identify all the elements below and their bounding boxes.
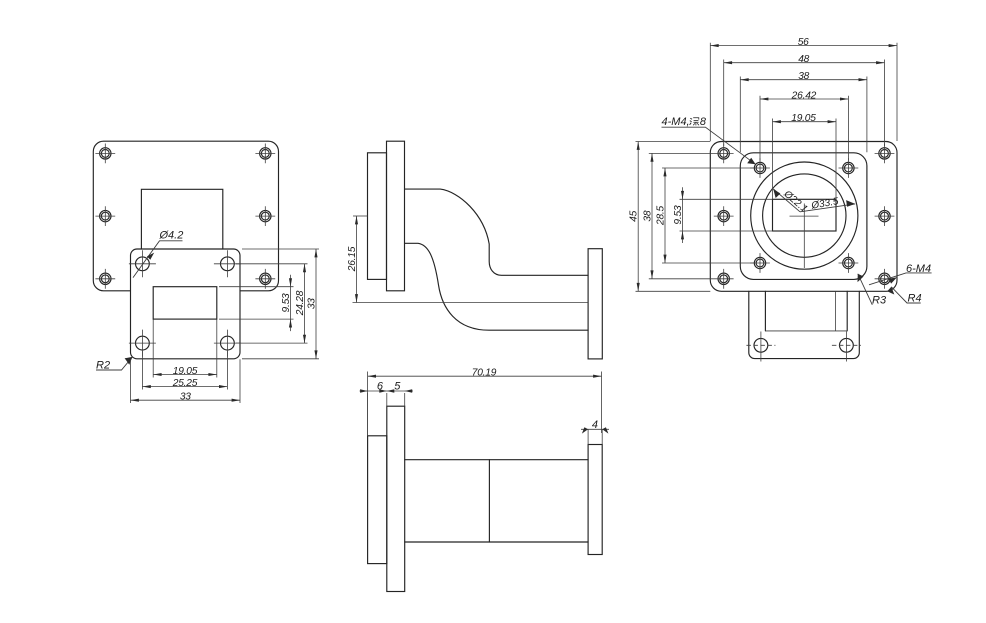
label dia33.5 with leader: [800, 196, 855, 212]
dim 24.28 front view: [295, 264, 306, 343]
label dia 4.2 with leader: [133, 230, 183, 278]
boss outline rear view: [740, 153, 867, 280]
big flange hole top-right: [255, 144, 275, 164]
svg-text:4: 4: [592, 419, 598, 431]
lower duct wall side view: [405, 243, 589, 330]
svg-text:26.42: 26.42: [791, 90, 817, 101]
dim 9.53 front view: [281, 275, 292, 331]
tube rear view: [765, 291, 847, 331]
label R3 with leader: [858, 274, 887, 307]
boss plate bottom view: [368, 436, 387, 564]
svg-text:70.19: 70.19: [472, 367, 497, 378]
tube divider bottom view: [488, 460, 490, 542]
big flange outline rear view: [710, 142, 897, 292]
dim 4 bottom view: [581, 419, 609, 445]
upper duct wall side view: [405, 189, 589, 275]
boss hole bottom-right: [839, 253, 859, 273]
dim 28.5 rear view: [655, 168, 666, 263]
svg-text:38: 38: [798, 71, 809, 82]
aperture hidden edge rear view: [835, 291, 837, 331]
svg-text:9.53: 9.53: [673, 205, 684, 225]
dim 38 top rear view: [740, 71, 867, 82]
dim 45 rear view: [629, 142, 640, 292]
label R4 with leader: [887, 287, 921, 305]
big flange hole bottom-right: [255, 269, 275, 289]
small flange outline front view: [131, 249, 241, 359]
flange hole rear mid-right: [875, 206, 895, 226]
dim 70.19: [368, 367, 602, 436]
dim 33 right front view: [306, 249, 317, 359]
dim 48 rear view: [724, 54, 885, 65]
small flange hole top-right: [214, 250, 241, 277]
dim 26.42 rear view: [760, 90, 848, 101]
svg-text:48: 48: [798, 54, 809, 65]
big flange hole mid-right: [255, 206, 275, 226]
flange hole rear mid-left: [714, 206, 734, 226]
svg-text:5: 5: [394, 381, 401, 393]
svg-text:28.5: 28.5: [655, 205, 666, 226]
extension lines top dims rear view: [710, 43, 897, 199]
small flange bottom view: [588, 445, 602, 555]
extension lines left dims rear view: [636, 142, 773, 292]
label R2 with leader: [96, 357, 132, 371]
flange hole rear top-right: [875, 144, 895, 164]
boss hole bottom-left: [750, 253, 770, 273]
dim 9.53 rear view: [673, 187, 684, 243]
waveguide tube front view: [141, 189, 222, 249]
rear small flange hole left: [746, 332, 775, 362]
svg-text:R3: R3: [872, 295, 887, 307]
small flange hole bottom-left: [129, 330, 156, 357]
svg-text:4-M4,: 4-M4,: [662, 116, 690, 128]
flange plate side view: [387, 141, 405, 291]
svg-text:33: 33: [180, 392, 191, 403]
flange hole rear top-left: [714, 144, 734, 164]
big flange hole top-left: [95, 144, 115, 164]
flange plate bottom view: [387, 406, 405, 591]
svg-text:56: 56: [798, 37, 809, 48]
aperture rear view: [773, 199, 837, 231]
dim 19.05 front view: [153, 366, 217, 377]
tube walls bottom view: [405, 460, 588, 542]
svg-text:19.05: 19.05: [791, 113, 816, 124]
small flange rear view outline: [749, 291, 860, 358]
svg-text:9.53: 9.53: [281, 293, 292, 313]
flange hole rear bottom-left: [714, 269, 734, 289]
svg-text:38: 38: [642, 210, 653, 221]
boss hole top-left: [750, 158, 770, 178]
small flange hole top-left: [129, 250, 156, 277]
svg-text:6: 6: [377, 381, 384, 393]
boss hole top-right: [839, 158, 859, 178]
svg-text:33: 33: [306, 298, 317, 309]
circular boss rear view: [751, 162, 858, 269]
dim 33 bottom front view: [131, 392, 241, 403]
boss plate side view: [368, 153, 387, 280]
big flange outline front view: [93, 141, 278, 291]
extension lines bottom dims front view: [131, 320, 241, 404]
axis extension line side view: [353, 302, 589, 304]
svg-text:26.15: 26.15: [347, 246, 358, 272]
extension lines right dims front view: [219, 249, 319, 359]
svg-text:R2: R2: [96, 359, 110, 371]
dim 56 rear view: [710, 37, 897, 48]
dim 26.15 side view: [347, 216, 368, 303]
rear small flange hole right: [832, 332, 861, 362]
svg-text:19.05: 19.05: [173, 366, 198, 377]
svg-text:8: 8: [700, 116, 707, 128]
label dia22.1 with leader: [773, 188, 810, 215]
big flange hole mid-left: [95, 206, 115, 226]
big flange hole bottom-left: [95, 269, 115, 289]
label 4-M4 depth8 with leader: [662, 116, 756, 165]
dim 19.05 rear view: [773, 113, 837, 124]
svg-text:45: 45: [629, 210, 640, 221]
flange hole rear bottom-right: [875, 269, 895, 289]
svg-text:25.25: 25.25: [172, 378, 198, 389]
dim 6 and 5 bottom view: [360, 381, 414, 436]
small flange plate side view: [588, 249, 602, 359]
svg-text:24.28: 24.28: [295, 290, 306, 316]
small flange aperture front view: [153, 287, 217, 319]
dim 25.25 front view: [142, 378, 227, 389]
label 6-M4 with leader: [869, 263, 932, 285]
svg-text:Ø4.2: Ø4.2: [159, 230, 184, 242]
small flange hole bottom-right: [214, 330, 241, 357]
inner circle rear view: [763, 174, 846, 257]
dim 38 left rear view: [642, 153, 653, 278]
center mark rear view: [790, 204, 819, 269]
